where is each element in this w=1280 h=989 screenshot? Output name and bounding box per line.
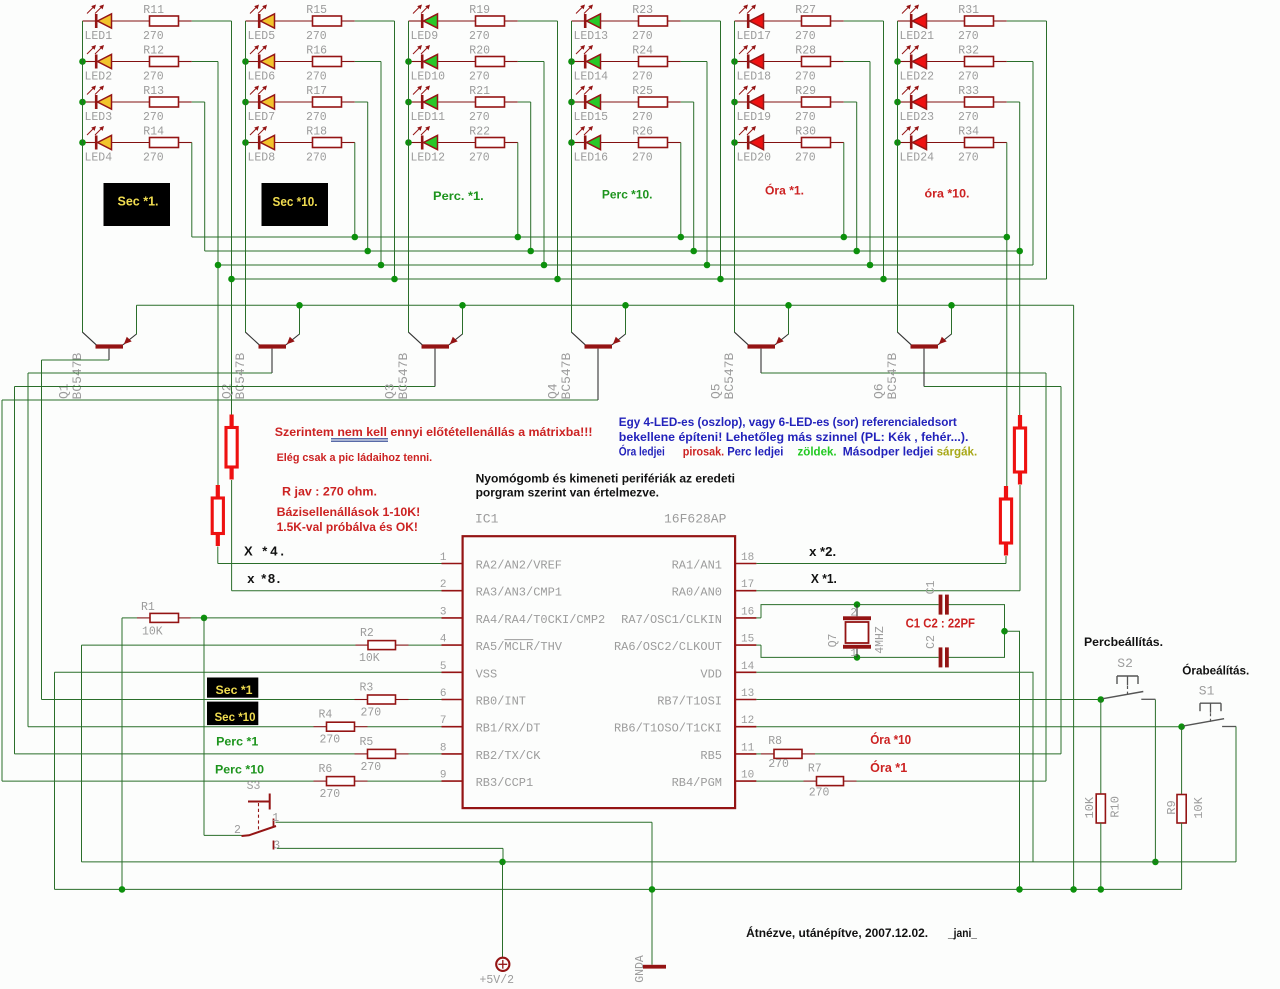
svg-text:R15: R15 [306, 4, 327, 17]
svg-text:1.5K-val próbálva és OK!: 1.5K-val próbálva és OK! [277, 520, 418, 534]
svg-text:R33: R33 [958, 85, 979, 98]
svg-text:15: 15 [741, 634, 754, 646]
svg-text:4: 4 [440, 634, 447, 646]
svg-text:16: 16 [741, 606, 754, 618]
svg-text:270: 270 [469, 111, 490, 124]
svg-text:LED6: LED6 [248, 71, 276, 84]
svg-text:R8: R8 [768, 735, 782, 748]
svg-text:R21: R21 [469, 85, 490, 98]
svg-text:X *1.: X *1. [811, 571, 837, 586]
svg-text:R6: R6 [319, 763, 333, 776]
svg-text:Sec *10.: Sec *10. [273, 194, 318, 209]
svg-text:Óra *10: Óra *10 [870, 732, 911, 747]
svg-text:Perc ledjei: Perc ledjei [727, 447, 783, 459]
svg-text:LED20: LED20 [737, 152, 772, 165]
svg-text:270: 270 [361, 707, 382, 720]
svg-text:Egy 4-LED-es (oszlop), vagy 6-: Egy 4-LED-es (oszlop), vagy 6-LED-es (so… [619, 417, 957, 429]
svg-text:7: 7 [440, 715, 447, 727]
svg-text:x *2.: x *2. [809, 544, 836, 559]
svg-text:270: 270 [809, 787, 830, 800]
svg-text:RA7/OSC1/CLKIN: RA7/OSC1/CLKIN [621, 613, 722, 627]
svg-text:LED24: LED24 [900, 152, 935, 165]
svg-text:_jani_: _jani_ [947, 926, 977, 940]
svg-text:Szerintem nem kell ennyi előté: Szerintem nem kell ennyi előtétellenállá… [275, 425, 593, 439]
svg-text:270: 270 [958, 30, 979, 43]
svg-text:270: 270 [958, 151, 979, 164]
svg-text:zöldek.: zöldek. [798, 447, 837, 459]
svg-text:R16: R16 [306, 45, 327, 58]
svg-text:270: 270 [306, 151, 327, 164]
svg-text:BC547B: BC547B [722, 352, 737, 399]
svg-text:RA0/AN0: RA0/AN0 [672, 586, 722, 600]
svg-text:RB0/INT: RB0/INT [476, 695, 526, 709]
svg-text:R1: R1 [141, 601, 155, 614]
svg-text:LED8: LED8 [248, 152, 276, 165]
svg-text:BC547B: BC547B [885, 352, 900, 399]
svg-text:R23: R23 [632, 4, 653, 17]
svg-text:C1 C2 : 22PF: C1 C2 : 22PF [906, 617, 976, 631]
svg-text:R27: R27 [795, 4, 816, 17]
svg-text:LED18: LED18 [737, 71, 772, 84]
svg-text:8: 8 [440, 742, 447, 754]
svg-text:Órabeálítás.: Órabeálítás. [1182, 663, 1249, 678]
svg-text:Sec *10: Sec *10 [215, 710, 256, 724]
svg-text:13: 13 [741, 688, 754, 700]
svg-text:9: 9 [440, 770, 447, 782]
svg-text:1: 1 [850, 648, 857, 660]
svg-text:RB5: RB5 [700, 749, 722, 763]
svg-text:R3: R3 [360, 682, 374, 695]
svg-text:R18: R18 [306, 126, 327, 139]
svg-text:óra *10.: óra *10. [925, 187, 970, 201]
svg-text:10: 10 [741, 770, 754, 782]
svg-text:270: 270 [632, 151, 653, 164]
svg-text:2: 2 [440, 579, 447, 591]
svg-text:270: 270 [143, 30, 164, 43]
svg-text:R20: R20 [469, 45, 490, 58]
svg-text:3: 3 [273, 839, 280, 852]
svg-text:270: 270 [143, 111, 164, 124]
svg-text:R11: R11 [143, 4, 164, 17]
svg-text:RA1/AN1: RA1/AN1 [672, 559, 722, 573]
svg-text:R5: R5 [360, 736, 374, 749]
svg-text:bekellene építeni! Lehetőleg m: bekellene építeni! Lehetőleg más szinnel… [619, 432, 969, 444]
svg-text:270: 270 [795, 151, 816, 164]
svg-text:16F628AP: 16F628AP [664, 512, 727, 527]
svg-text:R22: R22 [469, 126, 490, 139]
svg-text:5: 5 [440, 661, 447, 673]
svg-text:RA4/RA4/T0CKI/CMP2: RA4/RA4/T0CKI/CMP2 [476, 613, 606, 627]
svg-text:R30: R30 [795, 126, 816, 139]
svg-text:BC547B: BC547B [233, 352, 248, 399]
svg-text:LED4: LED4 [85, 152, 113, 165]
svg-text:LED22: LED22 [900, 71, 935, 84]
svg-text:R28: R28 [795, 45, 816, 58]
svg-text:12: 12 [741, 715, 754, 727]
svg-text:270: 270 [795, 30, 816, 43]
svg-text:270: 270 [361, 761, 382, 774]
svg-text:R13: R13 [143, 85, 164, 98]
svg-text:R25: R25 [632, 85, 653, 98]
svg-text:LED21: LED21 [900, 30, 935, 43]
svg-text:Nyomógomb és kimeneti periféri: Nyomógomb és kimeneti perifériák az ered… [476, 474, 735, 486]
svg-text:R26: R26 [632, 126, 653, 139]
svg-text:270: 270 [768, 758, 789, 771]
svg-text:R jav : 270 ohm.: R jav : 270 ohm. [282, 484, 377, 498]
svg-text:1: 1 [272, 812, 279, 825]
svg-text:R14: R14 [143, 126, 164, 139]
svg-text:BC547B: BC547B [70, 352, 85, 399]
svg-text:R19: R19 [469, 4, 490, 17]
svg-text:VDD: VDD [700, 667, 722, 681]
svg-text:R12: R12 [143, 45, 164, 58]
svg-text:RB6/T1OSO/T1CKI: RB6/T1OSO/T1CKI [614, 722, 722, 736]
svg-text:Óra *1.: Óra *1. [765, 183, 804, 198]
svg-text:270: 270 [320, 734, 341, 747]
svg-text:10K: 10K [359, 652, 380, 665]
svg-text:270: 270 [143, 70, 164, 83]
svg-text:Perc *10: Perc *10 [215, 763, 264, 777]
svg-text:VSS: VSS [476, 667, 498, 681]
svg-text:R31: R31 [958, 4, 979, 17]
svg-text:270: 270 [632, 30, 653, 43]
svg-text:LED1: LED1 [85, 30, 113, 43]
svg-text:R17: R17 [306, 85, 327, 98]
svg-text:17: 17 [741, 579, 754, 591]
svg-text:LED13: LED13 [574, 30, 609, 43]
svg-text:270: 270 [795, 111, 816, 124]
svg-text:14: 14 [741, 661, 755, 673]
svg-text:10K: 10K [1083, 796, 1097, 818]
svg-text:RA2/AN2/VREF: RA2/AN2/VREF [476, 559, 562, 573]
svg-text:LED9: LED9 [411, 30, 439, 43]
svg-text:R24: R24 [632, 45, 653, 58]
svg-text:10K: 10K [1192, 796, 1206, 818]
svg-text:LED14: LED14 [574, 71, 609, 84]
svg-text:RB2/TX/CK: RB2/TX/CK [476, 749, 542, 763]
svg-text:RB7/T1OSI: RB7/T1OSI [657, 695, 722, 709]
svg-text:RB1/RX/DT: RB1/RX/DT [476, 722, 541, 736]
svg-text:270: 270 [469, 151, 490, 164]
svg-text:270: 270 [306, 30, 327, 43]
svg-text:1: 1 [440, 552, 447, 564]
svg-text:Átnézve, utánépítve, 2007.12.0: Átnézve, utánépítve, 2007.12.02. [746, 925, 928, 940]
svg-text:LED3: LED3 [85, 111, 113, 124]
svg-text:R9: R9 [1165, 800, 1179, 814]
svg-text:2: 2 [850, 607, 857, 619]
svg-text:R7: R7 [808, 763, 822, 776]
svg-text:C1: C1 [925, 581, 938, 595]
svg-text:RA6/OSC2/CLKOUT: RA6/OSC2/CLKOUT [614, 640, 722, 654]
svg-text:LED19: LED19 [737, 111, 772, 124]
svg-text:270: 270 [632, 70, 653, 83]
svg-text:Óra ledjei: Óra ledjei [619, 446, 665, 459]
svg-text:Perc *10.: Perc *10. [602, 188, 653, 202]
svg-text:Másodper ledjei: Másodper ledjei [843, 447, 934, 459]
svg-text:R34: R34 [958, 126, 979, 139]
svg-text:R29: R29 [795, 85, 816, 98]
svg-text:LED17: LED17 [737, 30, 772, 43]
svg-text:LED7: LED7 [248, 111, 276, 124]
svg-text:270: 270 [143, 151, 164, 164]
svg-text:18: 18 [741, 552, 754, 564]
svg-text:270: 270 [795, 70, 816, 83]
svg-text:270: 270 [306, 111, 327, 124]
svg-text:3: 3 [440, 606, 447, 618]
svg-text:Sec *1.: Sec *1. [118, 194, 159, 209]
svg-text:S2: S2 [1117, 656, 1133, 671]
svg-text:BC547B: BC547B [559, 352, 574, 399]
svg-text:LED11: LED11 [411, 111, 446, 124]
svg-text:Bázisellenállások 1-10K!: Bázisellenállások 1-10K! [277, 505, 421, 519]
svg-text:Óra *1: Óra *1 [870, 760, 907, 775]
svg-text:Perc. *1.: Perc. *1. [433, 189, 484, 203]
svg-text:270: 270 [320, 788, 341, 801]
svg-text:+5V/2: +5V/2 [480, 974, 515, 987]
svg-text:270: 270 [469, 70, 490, 83]
svg-text:10K: 10K [142, 625, 163, 638]
svg-text:RB4/PGM: RB4/PGM [672, 776, 722, 790]
svg-text:porgram szerint van értelmezve: porgram szerint van értelmezve. [476, 488, 659, 500]
svg-text:LED2: LED2 [85, 71, 113, 84]
svg-text:C2: C2 [925, 635, 938, 649]
svg-text:R4: R4 [319, 709, 333, 722]
svg-text:LED5: LED5 [248, 30, 276, 43]
svg-text:pirosak.: pirosak. [683, 447, 724, 459]
svg-text:GNDA: GNDA [634, 955, 647, 983]
svg-text:LED16: LED16 [574, 152, 609, 165]
svg-text:LED23: LED23 [900, 111, 935, 124]
svg-text:11: 11 [741, 742, 755, 754]
svg-text:2: 2 [234, 824, 241, 837]
svg-text:270: 270 [632, 111, 653, 124]
svg-text:S1: S1 [1199, 684, 1215, 699]
svg-text:R10: R10 [1109, 796, 1123, 818]
svg-text:Percbeállítás.: Percbeállítás. [1084, 635, 1163, 649]
svg-text:270: 270 [958, 111, 979, 124]
svg-text:270: 270 [306, 70, 327, 83]
svg-text:Q7: Q7 [827, 634, 840, 648]
svg-text:LED12: LED12 [411, 152, 446, 165]
svg-text:4MHZ: 4MHZ [874, 626, 887, 654]
svg-text:Sec *1: Sec *1 [216, 683, 253, 697]
svg-text:270: 270 [958, 70, 979, 83]
svg-text:BC547B: BC547B [396, 352, 411, 399]
svg-text:Elég csak a pic ládaihoz tenni: Elég csak a pic ládaihoz tenni. [277, 452, 433, 464]
svg-text:LED10: LED10 [411, 71, 446, 84]
svg-text:270: 270 [469, 30, 490, 43]
svg-text:IC1: IC1 [475, 512, 499, 527]
svg-text:sárgák.: sárgák. [937, 447, 978, 459]
svg-text:RB3/CCP1: RB3/CCP1 [476, 776, 534, 790]
svg-text:R32: R32 [958, 45, 979, 58]
svg-text:RA3/AN3/CMP1: RA3/AN3/CMP1 [476, 586, 562, 600]
svg-text:RA5/MCLR/THV: RA5/MCLR/THV [476, 640, 563, 654]
svg-text:Perc *1: Perc *1 [216, 735, 259, 749]
svg-text:R2: R2 [360, 627, 374, 640]
svg-text:S3: S3 [247, 780, 261, 793]
svg-text:6: 6 [440, 688, 447, 700]
svg-text:LED15: LED15 [574, 111, 609, 124]
